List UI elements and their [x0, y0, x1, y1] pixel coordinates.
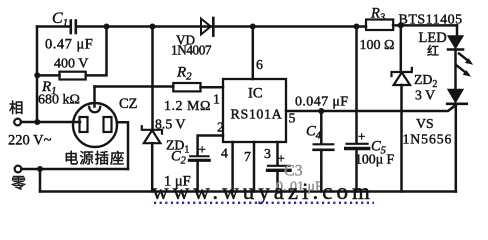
svg-text:电源插座: 电源插座	[64, 151, 125, 168]
node ZD2 top rail junction	[398, 22, 404, 28]
wire socket top pin riser	[93, 87, 96, 107]
wire ZD1 column upper	[151, 27, 154, 130]
wire socket right riser	[117, 122, 128, 169]
wire left rail (top corner down to phase tap)	[36, 27, 39, 123]
svg-text:6: 6	[256, 57, 263, 72]
node R1/left-rail junction	[34, 72, 40, 78]
wire C5 to bottom rail	[355, 150, 358, 192]
svg-text:0.47 μF: 0.47 μF	[45, 37, 93, 53]
resistor R1	[60, 72, 86, 80]
LED light arrows	[457, 54, 474, 77]
wire bottom rail	[40, 190, 456, 193]
wire R2 right lead to IC pin1	[201, 86, 224, 89]
wire IC pin3 drop	[276, 142, 279, 165]
capacitor C3 plates	[268, 165, 290, 167]
wire C4 upper lead	[320, 111, 323, 143]
capacitor C4 plates	[314, 143, 334, 145]
zener ZD1	[142, 126, 162, 143]
wire IC pin4 drop	[231, 142, 234, 192]
svg-text:4: 4	[221, 146, 228, 161]
svg-text:红: 红	[427, 43, 439, 58]
svg-text:1N4007: 1N4007	[171, 43, 212, 58]
wire VS to bottom rail	[455, 105, 458, 192]
svg-text:IC: IC	[248, 86, 263, 102]
wire phase lead to socket	[21, 121, 80, 124]
node pin6 top rail junction	[250, 24, 256, 30]
wire ZD1 to bottom rail	[151, 143, 154, 191]
svg-text:3 V: 3 V	[415, 88, 435, 103]
resistor R2	[173, 83, 200, 91]
capacitor C5 plates	[347, 143, 368, 145]
capacitor C1	[71, 21, 76, 34]
wire top rail right (R3 right to LED column corner)	[393, 24, 457, 27]
node C1/R1 junction on top rail	[104, 24, 110, 30]
neutral terminal	[15, 166, 22, 173]
wire socket-top to R2 horizontal	[95, 85, 174, 88]
svg-text:CZ: CZ	[119, 96, 138, 112]
svg-text:C3: C3	[284, 163, 303, 180]
wire top rail middle (C1 right plate to R3 left)	[77, 25, 366, 28]
svg-text:R2: R2	[176, 65, 192, 83]
svg-text:5: 5	[289, 111, 296, 126]
node neutral corner junction	[37, 166, 43, 172]
svg-text:www.wuyazi.com: www.wuyazi.com	[152, 179, 374, 204]
node 0.047 column top rail tap	[354, 24, 360, 30]
node top rail tap for ZD1 column	[150, 24, 156, 30]
wire top rail left segment (left rail corner to C1 left plate)	[37, 25, 70, 28]
svg-text:3: 3	[264, 146, 271, 161]
wire R1 right lead and riser to top rail	[86, 27, 107, 76]
svg-text:7: 7	[244, 149, 251, 164]
svg-text:680 kΩ: 680 kΩ	[38, 93, 80, 108]
svg-text:400 V: 400 V	[54, 57, 88, 72]
svg-text:8.5 V: 8.5 V	[155, 117, 185, 132]
diode VS	[448, 90, 463, 103]
svg-text:100 Ω: 100 Ω	[360, 38, 395, 53]
zener ZD2	[392, 68, 412, 85]
socket ground notch	[89, 107, 100, 113]
wire C4 to bottom rail	[320, 151, 323, 192]
LED diode	[448, 36, 462, 48]
wire IC pin2 lead to C2	[198, 136, 223, 155]
wire R1 left lead	[37, 74, 60, 77]
wire LED to VS	[454, 50, 457, 90]
svg-text:1N5656: 1N5656	[403, 132, 453, 147]
resistor R3	[366, 20, 393, 31]
svg-text:相: 相	[9, 100, 24, 117]
wire ZD2 column upper	[400, 25, 403, 71]
svg-text:C4: C4	[306, 124, 322, 142]
wire LED top lead	[456, 25, 459, 36]
IC U1 box	[223, 79, 286, 142]
socket CZ outline	[73, 103, 117, 147]
svg-text:1: 1	[213, 92, 220, 107]
wire IC pin6 riser	[252, 27, 255, 80]
watermark	[152, 179, 374, 204]
svg-text:BTS11405: BTS11405	[399, 13, 463, 28]
wire C3 to bottom rail	[276, 172, 279, 192]
socket right slot	[104, 117, 112, 132]
wire ZD2 to bottom rail	[400, 85, 403, 192]
svg-text:R3: R3	[370, 6, 385, 24]
wire neutral drop to bottom rail	[39, 169, 42, 192]
node C4 tap on pin5 wire	[318, 108, 324, 114]
svg-text:RS101A: RS101A	[231, 108, 283, 123]
wire IC pin7 drop	[253, 142, 256, 192]
svg-text:+: +	[199, 142, 206, 157]
svg-text:零: 零	[11, 176, 26, 192]
svg-text:100μ F: 100μ F	[355, 152, 395, 167]
svg-text:1.2 MΩ: 1.2 MΩ	[164, 99, 211, 114]
wire 0.047/C5 column upper	[355, 27, 358, 143]
phase terminal	[14, 119, 21, 126]
svg-text:C1: C1	[52, 10, 68, 29]
svg-text:VS: VS	[416, 116, 434, 131]
capacitor C2 plates	[190, 155, 209, 157]
node phase/left-rail junction	[34, 119, 40, 125]
svg-text:0.047 μF: 0.047 μF	[295, 95, 349, 110]
diode VD	[201, 19, 211, 35]
wire C2 to bottom rail	[196, 162, 199, 192]
svg-text:+: +	[358, 129, 365, 144]
svg-text:220 V~: 220 V~	[8, 133, 52, 149]
wire IC pin5 horizontal	[286, 105, 456, 111]
wire neutral run (terminal to socket right riser)	[21, 168, 128, 171]
socket left slot	[80, 117, 88, 132]
